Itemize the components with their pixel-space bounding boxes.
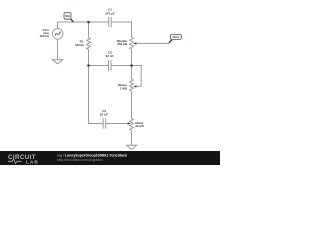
svg-text:270 pF: 270 pF: [105, 12, 115, 16]
svg-text:1 MΩ: 1 MΩ: [120, 87, 128, 91]
svg-text:22 kΩ: 22 kΩ: [135, 124, 144, 128]
svg-text:22 nF: 22 nF: [106, 54, 114, 58]
svg-text:Vin: Vin: [65, 14, 70, 18]
svg-text:22 nF: 22 nF: [100, 113, 108, 117]
svg-text:mg / LaneySuperGroup100Mk1-Ton: mg / LaneySuperGroup100Mk1-ToneStack: [57, 153, 127, 157]
svg-text:http://circuitlab.com/c6qpk4xv: http://circuitlab.com/c6qpk4xv: [57, 158, 103, 162]
svg-text:56 kΩ: 56 kΩ: [75, 43, 84, 47]
svg-text:250 kΩ: 250 kΩ: [117, 42, 128, 46]
svg-text:100 Hz: 100 Hz: [39, 34, 49, 38]
svg-text:Vout: Vout: [173, 35, 179, 39]
svg-text:LAB: LAB: [26, 159, 39, 165]
